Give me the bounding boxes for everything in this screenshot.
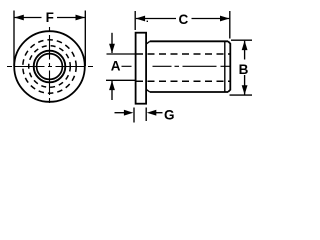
A down arrow stem	[111, 33, 113, 53]
side view: flange rectangle	[136, 33, 147, 104]
G right arrow pointing left	[147, 110, 157, 116]
B up arrow	[242, 41, 248, 51]
end view vertical centerline	[49, 27, 51, 106]
C extension line left	[134, 11, 136, 30]
svg-text:A: A	[111, 59, 121, 74]
svg-text:B: B	[239, 62, 249, 77]
C right arrow	[220, 16, 230, 22]
end view: flange outer circle	[14, 31, 85, 102]
G right leader tail	[156, 112, 163, 114]
body right edge with corner chamfers	[228, 41, 230, 92]
C left arrow	[136, 16, 146, 22]
side view centerline	[122, 65, 231, 67]
C dimension line left segment	[136, 18, 176, 20]
bore chamfer circle	[34, 51, 66, 83]
G left leader tail	[115, 112, 126, 114]
C extension line right	[229, 11, 231, 39]
svg-text:C: C	[179, 12, 189, 27]
B down arrow	[242, 85, 248, 95]
end view horizontal centerline	[7, 66, 93, 68]
F left arrow	[14, 15, 23, 21]
A up arrow stem	[111, 81, 113, 100]
chamfer tangent vertical line	[224, 41, 226, 92]
body top edge	[150, 40, 228, 42]
A upper extension line	[107, 53, 136, 55]
B extension line top	[231, 39, 252, 41]
body bottom edge	[150, 91, 228, 93]
fillet top at flange	[146, 41, 150, 44]
bore hidden line upper	[136, 53, 230, 55]
G extension line right	[145, 108, 147, 122]
fillet bottom at flange	[146, 89, 150, 92]
hidden circle: bushing body OD	[23, 40, 76, 93]
G extension line left	[133, 108, 135, 123]
bore hidden line lower	[136, 80, 230, 82]
F right arrow	[76, 15, 86, 21]
svg-text:G: G	[164, 108, 175, 123]
bore circle	[37, 54, 63, 80]
C dimension line right segment	[192, 18, 230, 20]
svg-text:F: F	[46, 10, 54, 25]
A lower extension line	[106, 79, 136, 81]
B extension line bottom	[230, 94, 253, 96]
G left arrow pointing right	[124, 110, 133, 116]
F extension line left	[13, 11, 15, 67]
A up arrow	[109, 81, 115, 91]
F dimension line left segment	[15, 17, 42, 19]
F extension line right	[84, 11, 86, 67]
stray dot artifact near C left arrow	[147, 21, 148, 22]
B dimension line lower	[244, 75, 246, 95]
A down arrow	[109, 44, 115, 54]
F dimension line right segment	[57, 17, 85, 19]
hidden circle: inner step	[29, 46, 71, 88]
B dimension line upper	[244, 41, 246, 60]
